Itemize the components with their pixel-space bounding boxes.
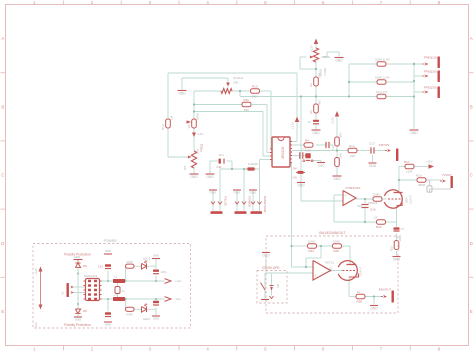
svg-text:+: + <box>315 274 317 278</box>
svg-text:FMTUN: FMTUN <box>379 143 390 147</box>
svg-text:TUNE: TUNE <box>323 68 327 76</box>
power +12V above tune pot <box>310 39 319 53</box>
svg-text:POWER: POWER <box>104 239 117 243</box>
LED2 <box>142 304 151 322</box>
svg-text:500K: 500K <box>323 55 330 59</box>
svg-text:GND: GND <box>153 317 159 321</box>
svg-text:R28: R28 <box>357 300 363 304</box>
svg-text:7VSETOFF: 7VSETOFF <box>345 186 361 190</box>
wire power rails <box>77 259 165 316</box>
svg-text:-: - <box>315 266 316 270</box>
wire third row into IC <box>194 112 272 157</box>
svg-text:220R: 220R <box>373 192 381 196</box>
svg-text:10K: 10K <box>339 153 343 158</box>
svg-text:GND: GND <box>190 175 198 179</box>
svg-text:D: D <box>470 241 473 246</box>
svg-text:GND: GND <box>297 184 305 188</box>
svg-text:GND: GND <box>369 164 377 168</box>
resistor R28 1K out <box>356 290 365 304</box>
svg-text:110K: 110K <box>406 170 413 174</box>
dashed box POWER <box>33 239 191 328</box>
wire cathode net tube1 <box>334 206 397 256</box>
wire cathode net tube2 <box>349 277 383 305</box>
svg-text:100K: 100K <box>333 239 340 243</box>
IC U4 NMA1212 dc-dc <box>84 274 102 301</box>
resistor R16 7V divider <box>416 173 426 187</box>
svg-text:22K: 22K <box>350 154 355 158</box>
svg-text:D: D <box>1 241 4 246</box>
capacitor C17 cathode <box>394 227 405 231</box>
capacitor C18 3300pF <box>357 201 378 212</box>
svg-text:+12V: +12V <box>331 117 335 124</box>
svg-text:R5: R5 <box>309 110 313 114</box>
inductor L2 bead <box>113 293 125 302</box>
ghost capacitor gray <box>427 180 451 192</box>
wire long vertical to opamp U2 <box>301 97 343 202</box>
svg-text:1K: 1K <box>374 215 378 219</box>
svg-text:450R: 450R <box>418 183 426 187</box>
svg-text:B: B <box>470 104 473 109</box>
power +12V to IC <box>291 117 300 130</box>
resistor R24 100K <box>308 239 317 253</box>
op-amp U3 <box>313 261 335 281</box>
svg-text:C16: C16 <box>370 208 376 212</box>
wire U2 feedback input <box>334 195 343 222</box>
svg-text:1K 0.1%: 1K 0.1% <box>376 90 388 94</box>
text polarity protection bottom <box>64 323 91 327</box>
svg-text:470R: 470R <box>126 313 133 317</box>
diode D3 on output net <box>247 162 259 171</box>
svg-text:-12V: -12V <box>34 322 38 328</box>
op-amp U2 <box>343 186 361 206</box>
svg-text:GND: GND <box>318 164 326 168</box>
svg-text:C?: C? <box>401 227 405 231</box>
svg-text:A: A <box>1 36 4 41</box>
svg-text:GND: GND <box>210 191 218 195</box>
svg-text:1N4148: 1N4148 <box>248 162 258 166</box>
svg-text:DC: DC <box>276 284 280 288</box>
svg-text:1u: 1u <box>122 289 126 293</box>
svg-text:R12: R12 <box>349 144 355 148</box>
svg-text:R22: R22 <box>376 225 382 229</box>
svg-text:470R: 470R <box>126 260 133 264</box>
svg-text:-12v: -12v <box>175 297 181 301</box>
ground under D4 <box>297 183 305 188</box>
resistor R20 220R <box>373 192 383 201</box>
resistor R7 3K3 <box>335 132 343 146</box>
svg-text:R13: R13 <box>252 85 258 89</box>
svg-text:R24: R24 <box>309 249 315 253</box>
ground under C13 <box>369 163 377 168</box>
svg-text:C4: C4 <box>293 176 297 180</box>
pin FREQ1OUT <box>423 56 441 69</box>
svg-text:C: C <box>470 173 473 178</box>
svg-text:C19: C19 <box>98 265 104 269</box>
svg-text:U$5: U$5 <box>329 267 333 273</box>
capacitor C6 1u <box>308 120 319 124</box>
resistor R1 100K 0.1% <box>375 58 390 67</box>
svg-text:B: B <box>1 104 4 109</box>
capacitor C7 bypass <box>300 148 313 162</box>
arrow +12v rail <box>165 279 183 284</box>
svg-text:C13: C13 <box>369 142 375 146</box>
svg-text:R9: R9 <box>187 124 191 128</box>
svg-text:GND: GND <box>262 254 270 258</box>
pin FREQ2OUT <box>423 70 441 83</box>
ground for U3 plus input <box>262 253 270 258</box>
svg-text:GND: GND <box>75 318 81 322</box>
diode D5 polarity <box>74 255 88 309</box>
ground under R14 <box>333 176 342 181</box>
power entry arrows +-12V <box>34 267 43 329</box>
svg-text:1K: 1K <box>357 290 361 294</box>
ground right of C7 <box>317 163 325 168</box>
svg-text:VALVEGAIN/OUT: VALVEGAIN/OUT <box>319 231 346 235</box>
resistor R13 <box>251 85 260 99</box>
pin FREQ3OUT <box>423 86 441 99</box>
svg-text:+: + <box>345 193 347 197</box>
resistor R10 <box>161 115 174 130</box>
capacitor C11 10u <box>216 153 224 169</box>
svg-text:100K 0.1%: 100K 0.1% <box>375 76 390 80</box>
svg-text:SCALE: SCALE <box>233 76 243 80</box>
svg-text:RAMP/SAW: RAMP/SAW <box>263 196 267 212</box>
svg-text:C: C <box>1 173 4 178</box>
svg-text:-12V: -12V <box>197 132 203 136</box>
svg-text:GND: GND <box>335 59 343 63</box>
svg-text:R17: R17 <box>404 160 410 164</box>
resistor R6 10K <box>309 73 322 87</box>
wire U3 out to tube2 grid <box>331 270 344 272</box>
dashed box VALVEGAIN/OUT <box>266 231 398 313</box>
svg-text:+12v: +12v <box>175 279 182 283</box>
wire into opamp U3 inputs <box>292 246 322 267</box>
svg-text:GND: GND <box>393 258 401 262</box>
wire output net y169 <box>220 160 270 170</box>
ground GND2 <box>206 174 215 179</box>
svg-text:GND: GND <box>178 92 186 96</box>
connector X1 power input <box>61 283 86 297</box>
switch and jack in envelope box <box>261 283 281 300</box>
resistor R22 1K cathode <box>374 215 386 229</box>
wire freq-out pin column <box>414 62 425 129</box>
svg-text:GND: GND <box>153 254 159 258</box>
resistor R21 led bottom <box>126 307 135 316</box>
capacitor C5 <box>326 142 329 148</box>
resistor R12 22K <box>348 144 357 158</box>
svg-text:ENVELOPE: ENVELOPE <box>262 266 279 270</box>
svg-text:10K: 10K <box>306 148 311 152</box>
power +12V to R7 <box>331 111 340 124</box>
capacitor C21 across rails <box>115 287 125 294</box>
svg-text:+12V: +12V <box>310 45 314 52</box>
power +12V right arrow <box>425 159 434 168</box>
tube V1 12AX7 <box>384 190 412 208</box>
svg-text:4K7: 4K7 <box>318 99 322 105</box>
ground under freq pin column <box>410 130 419 135</box>
svg-text:10K: 10K <box>318 73 322 78</box>
resistor R19 led top <box>126 260 135 268</box>
potentiometer TUNE 500K <box>310 48 330 76</box>
svg-text:-: - <box>345 200 346 204</box>
svg-text:1M: 1M <box>170 115 174 120</box>
svg-text:GND: GND <box>105 323 111 327</box>
resistor R3 1K 0.1% <box>376 90 388 99</box>
svg-text:GND: GND <box>105 249 111 253</box>
resistor R14 <box>335 153 343 166</box>
wire +12V stub to R7 <box>336 116 338 176</box>
capacitor C13 100n <box>369 142 375 154</box>
arrow -12v rail <box>165 297 182 302</box>
svg-text:100K: 100K <box>308 239 315 243</box>
ground under FREQ pot <box>190 174 199 179</box>
svg-text:10u: 10u <box>218 153 223 157</box>
svg-text:R23: R23 <box>390 246 394 252</box>
wire R11 row <box>194 105 272 153</box>
ground under R23 <box>393 257 401 262</box>
potentiometer SCALE <box>221 76 243 93</box>
pin FMTUN <box>379 143 399 161</box>
svg-text:GND: GND <box>250 191 258 195</box>
svg-text:GND: GND <box>234 191 242 195</box>
text polarity protection top <box>64 253 91 257</box>
svg-text:R25: R25 <box>334 249 340 253</box>
svg-text:LED2: LED2 <box>143 317 150 321</box>
svg-text:R16: R16 <box>416 173 422 177</box>
svg-text:X1: X1 <box>61 291 65 295</box>
power -12V arrow <box>192 132 203 137</box>
svg-text:E: E <box>1 309 4 314</box>
wire tune divider column <box>315 86 317 130</box>
resistor R17 anode <box>404 160 414 174</box>
wire U3 plus input ground <box>266 259 313 274</box>
diode D6 polarity <box>74 309 87 322</box>
wire envelope jack <box>265 273 272 299</box>
svg-text:ENVOUT: ENVOUT <box>379 288 392 292</box>
svg-text:3K3: 3K3 <box>339 132 343 138</box>
resistor R5 4K7 <box>309 99 322 114</box>
resistor R4 near IC <box>304 139 313 153</box>
wire FM row from IC <box>292 151 387 163</box>
LED1 <box>142 257 151 270</box>
IC U1 XR2206 <box>270 137 292 167</box>
ground right of tune pot <box>335 58 344 63</box>
potentiometer FREQ <box>183 143 204 170</box>
svg-text:12AU7: 12AU7 <box>359 266 363 276</box>
inductor L1 bead <box>113 275 125 284</box>
ground under C6 <box>312 130 321 135</box>
svg-text:GND: GND <box>410 131 418 135</box>
svg-text:+12V: +12V <box>34 268 38 275</box>
wire scale-wiper to ground <box>182 78 228 90</box>
resistor R25 100K <box>333 239 342 253</box>
svg-text:AD712: AD712 <box>325 261 335 265</box>
resistor R2 100K 0.1% <box>375 76 390 85</box>
svg-text:R4: R4 <box>305 139 309 143</box>
capacitor C19 top <box>98 249 112 269</box>
svg-text:GND: GND <box>206 175 214 179</box>
svg-text:10K: 10K <box>233 81 239 85</box>
pin 7VOUT <box>440 173 453 188</box>
svg-text:C18: C18 <box>357 204 363 208</box>
wire freq-out rows <box>349 64 425 97</box>
svg-text:LED1: LED1 <box>143 257 150 261</box>
connector J3 RAMP/SAW <box>249 190 267 214</box>
svg-text:D5: D5 <box>83 264 87 268</box>
wire 7VOUT row <box>399 179 442 181</box>
ground GND top-left <box>178 90 187 96</box>
svg-text:GND: GND <box>312 131 320 135</box>
svg-text:100K: 100K <box>196 113 200 120</box>
svg-text:D4: D4 <box>293 167 297 171</box>
dashed box ENVELOPE <box>257 266 287 303</box>
svg-text:GND: GND <box>370 307 378 311</box>
capacitor C20 bottom <box>104 312 112 326</box>
resistor R23 cathode to gnd <box>390 235 403 251</box>
wire mult row from IC <box>292 145 333 151</box>
svg-text:A: A <box>470 36 473 41</box>
svg-text:R8: R8 <box>183 166 187 170</box>
wire amplifier feedback row <box>292 246 351 264</box>
wire tune pot loops <box>300 44 339 77</box>
wire output connectors verticals <box>213 169 260 211</box>
svg-text:1u: 1u <box>308 120 312 124</box>
svg-text:R6: R6 <box>309 83 313 87</box>
svg-text:XR2206: XR2206 <box>281 147 285 159</box>
svg-text:Polarity Protection: Polarity Protection <box>64 323 91 327</box>
resistor R9 <box>187 113 200 128</box>
ground under ENVOUT <box>370 306 378 311</box>
svg-text:D6: D6 <box>83 309 87 313</box>
wire long row to freq dividers <box>240 91 349 97</box>
wire bypass row from IC <box>292 156 321 163</box>
wire +12V top rail <box>168 73 297 142</box>
diode D4 under IC <box>293 167 305 182</box>
svg-text:FREQ: FREQ <box>200 143 204 152</box>
svg-text:GND: GND <box>74 255 80 259</box>
wire opamp U2 out to grid <box>356 198 387 200</box>
svg-text:E: E <box>470 309 473 314</box>
svg-text:PULSE: PULSE <box>224 196 228 206</box>
svg-text:R11: R11 <box>244 98 250 102</box>
svg-text:56K: 56K <box>244 108 249 112</box>
wire freq column <box>193 91 195 174</box>
svg-text:100K 0.1%: 100K 0.1% <box>375 58 390 62</box>
wire long vertical IC to amplifier <box>291 163 293 247</box>
svg-text:12AX7: 12AX7 <box>409 195 413 204</box>
wire anode net tube1 <box>399 167 429 193</box>
capacitor C23 bottom <box>152 301 160 321</box>
svg-text:R10: R10 <box>161 124 165 130</box>
svg-text:100K: 100K <box>398 235 402 242</box>
svg-text:GND: GND <box>333 177 341 181</box>
svg-text:24K: 24K <box>252 95 257 99</box>
wire scale pot row <box>194 91 272 149</box>
svg-text:NMA1212: NMA1212 <box>84 274 98 278</box>
svg-text:C11: C11 <box>216 165 222 169</box>
pin ENVOUT <box>379 288 394 303</box>
svg-text:100n: 100n <box>161 270 168 274</box>
wire C18 leads <box>364 199 366 222</box>
tube V2 12AU7 <box>329 261 363 281</box>
capacitor C22 top <box>152 254 167 275</box>
svg-text:+12V: +12V <box>425 159 432 163</box>
svg-text:L1: L1 <box>114 275 118 279</box>
connector J2 POWER <box>233 190 252 214</box>
resistor R11 <box>242 98 251 112</box>
svg-text:+12V: +12V <box>291 122 295 129</box>
wire left column to R10 <box>168 73 188 157</box>
wire C11 to ground net <box>210 161 232 174</box>
connector J1 PULSE <box>209 190 228 214</box>
